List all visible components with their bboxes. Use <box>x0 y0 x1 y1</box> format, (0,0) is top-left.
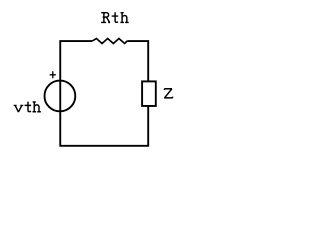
impedance Z <box>142 81 156 106</box>
label Rth <box>101 12 129 22</box>
label Z <box>164 89 173 98</box>
resistor Rth <box>92 39 127 44</box>
plus sign <box>50 71 56 78</box>
wire run: top-right segment and upper-right segment <box>127 41 148 81</box>
voltage source Vth <box>45 81 76 112</box>
label Vth <box>14 102 41 113</box>
wire run: top-left segment, left wire, bottom wire, lower-right segment <box>60 41 148 146</box>
